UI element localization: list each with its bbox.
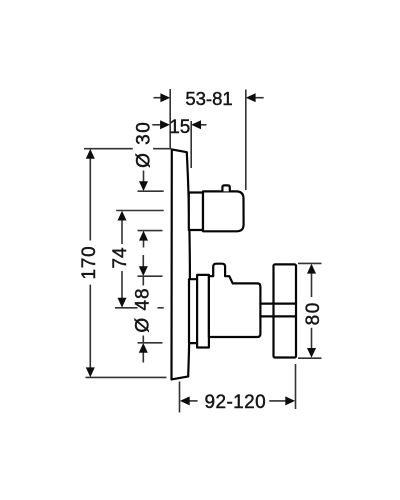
svg-text:Ø 48: Ø 48 (133, 287, 154, 332)
svg-text:15: 15 (169, 117, 190, 138)
svg-text:74: 74 (110, 247, 131, 269)
svg-text:170: 170 (79, 245, 100, 279)
svg-text:Ø 30: Ø 30 (134, 121, 155, 168)
svg-text:92-120: 92-120 (205, 392, 267, 413)
svg-text:53-81: 53-81 (185, 88, 232, 109)
svg-text:80: 80 (303, 301, 324, 325)
